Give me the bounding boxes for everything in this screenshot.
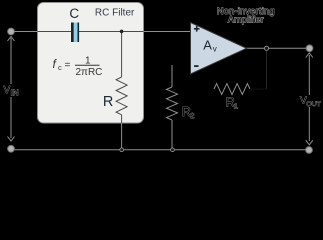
svg-text:2πRC: 2πRC (76, 67, 103, 78)
svg-text:C: C (69, 6, 79, 21)
svg-text:A: A (203, 37, 212, 52)
svg-text:1: 1 (234, 102, 238, 111)
svg-text:R: R (103, 94, 113, 110)
svg-text:2: 2 (190, 111, 194, 120)
svg-text:OUT: OUT (306, 101, 320, 108)
svg-text:Amplifier: Amplifier (228, 14, 264, 24)
svg-text:V: V (4, 85, 11, 96)
svg-text:IN: IN (11, 89, 19, 98)
svg-text:c: c (58, 63, 62, 72)
svg-text:v: v (213, 44, 217, 53)
svg-text:RC Filter: RC Filter (95, 7, 135, 18)
svg-text:=: = (65, 60, 71, 71)
